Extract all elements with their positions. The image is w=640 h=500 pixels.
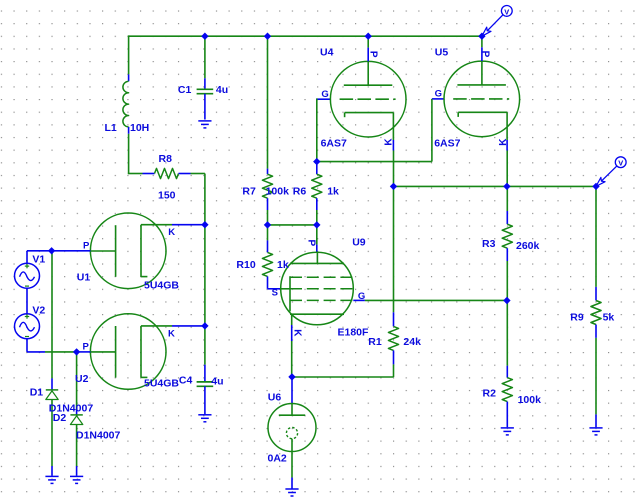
svg-text:K: K (498, 138, 509, 146)
svg-text:K: K (292, 329, 303, 337)
svg-text:5U4GB: 5U4GB (144, 280, 179, 292)
svg-text:V: V (504, 7, 509, 16)
svg-text:U6: U6 (268, 391, 282, 403)
svg-text:R2: R2 (483, 388, 497, 400)
svg-text:100k: 100k (518, 394, 542, 406)
svg-text:5U4GB: 5U4GB (144, 378, 179, 390)
svg-text:U9: U9 (352, 236, 366, 248)
svg-text:U1: U1 (77, 272, 91, 284)
svg-text:6AS7: 6AS7 (321, 138, 347, 150)
svg-text:R3: R3 (482, 238, 496, 250)
svg-text:K: K (168, 329, 175, 340)
svg-text:V1: V1 (32, 254, 45, 266)
svg-text:P: P (83, 240, 90, 251)
svg-text:24k: 24k (403, 336, 421, 348)
svg-text:K: K (384, 138, 395, 146)
svg-text:C1: C1 (178, 84, 192, 96)
svg-text:100k: 100k (266, 186, 290, 198)
svg-text:L1: L1 (105, 122, 117, 134)
svg-text:U2: U2 (75, 373, 89, 385)
svg-text:C4: C4 (179, 375, 193, 387)
svg-text:R10: R10 (236, 259, 255, 271)
svg-text:1k: 1k (277, 259, 289, 271)
svg-text:P: P (83, 341, 90, 352)
svg-text:D1: D1 (30, 386, 44, 398)
svg-text:G: G (358, 291, 365, 302)
svg-text:P: P (306, 240, 317, 247)
svg-text:4u: 4u (216, 84, 228, 96)
svg-text:E180F: E180F (338, 327, 370, 339)
svg-text:150: 150 (158, 189, 176, 201)
svg-text:V2: V2 (32, 305, 45, 317)
svg-text:U5: U5 (435, 47, 449, 59)
svg-text:5k: 5k (603, 312, 615, 324)
svg-text:D2: D2 (53, 412, 67, 424)
svg-text:4u: 4u (211, 376, 223, 388)
svg-text:S: S (272, 288, 278, 299)
svg-text:R8: R8 (159, 153, 173, 165)
svg-text:R7: R7 (242, 186, 256, 198)
svg-text:G: G (321, 89, 328, 100)
svg-text:0A2: 0A2 (268, 452, 287, 464)
svg-text:R6: R6 (293, 186, 307, 198)
svg-text:10H: 10H (130, 122, 149, 134)
svg-text:6AS7: 6AS7 (434, 138, 460, 150)
svg-text:D1N4007: D1N4007 (76, 429, 121, 441)
svg-text:K: K (168, 227, 175, 238)
svg-text:P: P (368, 51, 379, 58)
svg-text:1k: 1k (327, 186, 339, 198)
svg-text:260k: 260k (516, 240, 540, 252)
svg-text:P: P (479, 51, 490, 58)
svg-text:R9: R9 (570, 312, 584, 324)
svg-text:V: V (618, 159, 623, 168)
svg-text:U4: U4 (320, 47, 334, 59)
svg-text:G: G (435, 89, 442, 100)
svg-text:R1: R1 (368, 336, 382, 348)
